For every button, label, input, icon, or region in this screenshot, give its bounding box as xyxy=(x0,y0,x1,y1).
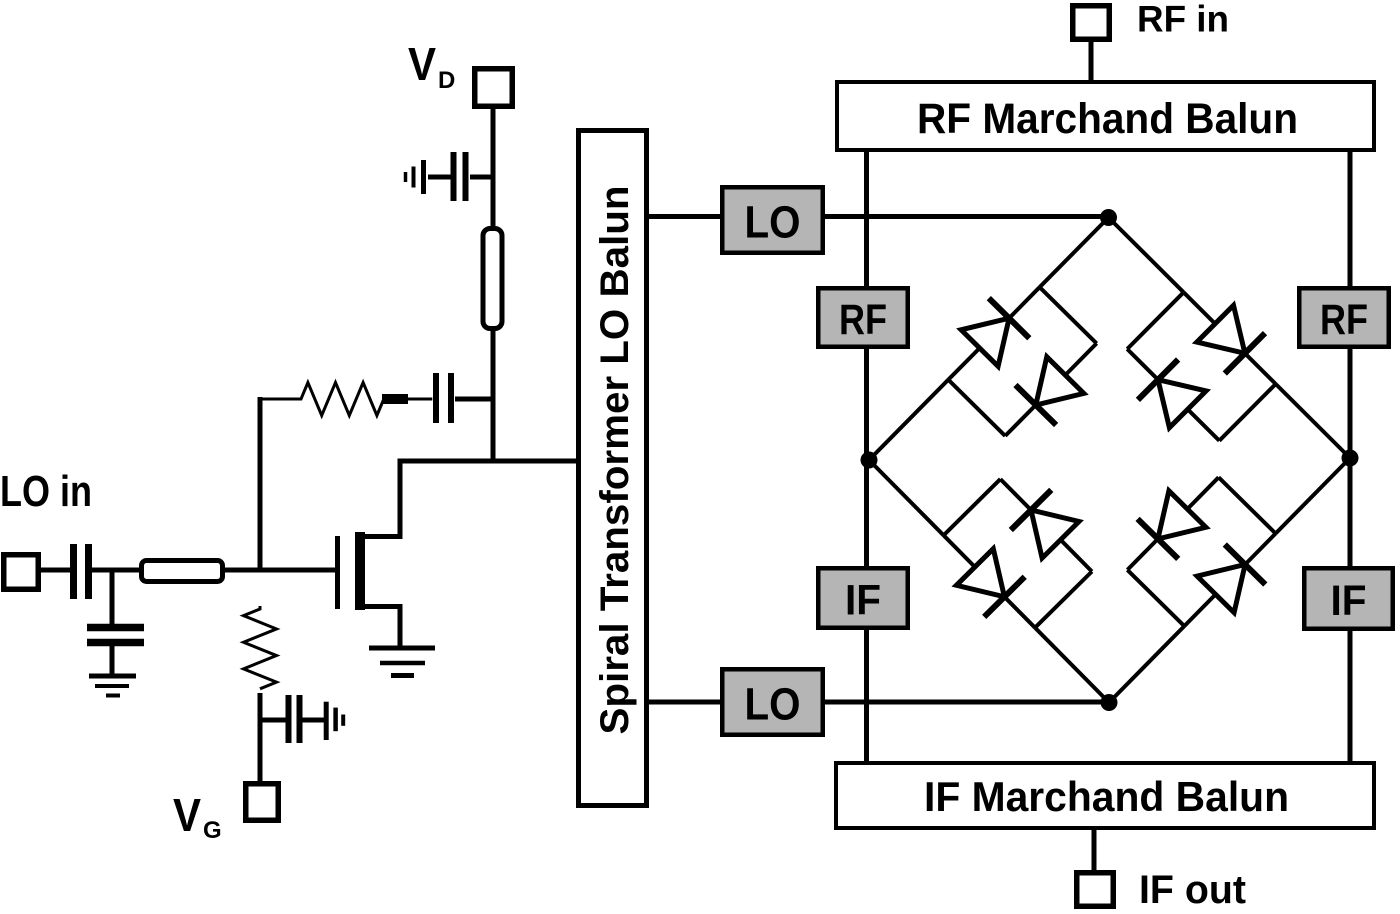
port box RF right xyxy=(1299,288,1389,347)
wire R3 to VG xyxy=(258,693,263,784)
transmission line TL1 xyxy=(142,561,223,582)
wire diode-quad arm top-right xyxy=(1109,218,1184,293)
capacitor C5 (VG bypass) xyxy=(258,718,287,723)
terminal LO in xyxy=(4,555,39,590)
port box RF left xyxy=(818,288,908,347)
wire C3 to TL1 xyxy=(90,568,141,573)
svg-text:IF: IF xyxy=(845,577,881,625)
diode D6 xyxy=(1031,510,1079,558)
svg-text:LO in: LO in xyxy=(0,467,92,516)
wire LO bottom xyxy=(647,700,1109,705)
svg-text:RF: RF xyxy=(839,296,887,344)
resistor R3 (gate bias zigzag) xyxy=(244,606,277,689)
port box IF right xyxy=(1304,568,1393,629)
wire diode-quad arm bottom-left xyxy=(869,460,944,535)
svg-text:RF Marchand Balun: RF Marchand Balun xyxy=(917,95,1298,143)
port box IF left xyxy=(818,568,908,628)
node LO- (bottom vertex) xyxy=(1101,694,1118,711)
terminal RF in xyxy=(1073,6,1110,40)
diode D3 xyxy=(1197,305,1245,353)
svg-text:RF in: RF in xyxy=(1137,0,1229,40)
box IF Marchand Balun xyxy=(836,763,1374,828)
diode D7 xyxy=(1197,565,1245,613)
wire RF-IF left bus xyxy=(864,150,869,763)
capacitor C1 (VD bypass) xyxy=(470,175,493,180)
diode D8 xyxy=(1158,491,1206,539)
svg-text:RF: RF xyxy=(1320,296,1368,344)
node RF- (left vertex) xyxy=(861,452,878,469)
port box LO bottom xyxy=(722,669,823,735)
resistor R2 (feedback zigzag) xyxy=(382,394,408,404)
svg-text:G: G xyxy=(203,817,222,844)
svg-text:V: V xyxy=(173,789,201,841)
capacitor C3 (LO series) xyxy=(70,544,77,599)
ground (rotated) at C5 xyxy=(324,702,329,740)
wire VD drain line xyxy=(491,107,496,459)
box spiral transformer LO balun xyxy=(579,131,647,806)
svg-text:LO: LO xyxy=(745,196,801,247)
transistor Q1 xyxy=(335,536,340,609)
svg-text:V: V xyxy=(408,38,436,90)
port box LO top xyxy=(722,187,823,253)
ground at C4 xyxy=(89,674,136,679)
node LO+ (top vertex) xyxy=(1100,209,1117,226)
wire drain to LO balun xyxy=(398,459,579,464)
wire IF out xyxy=(1092,828,1097,873)
wire LO in to C3 xyxy=(39,568,72,573)
wire diode-quad arm top-left xyxy=(1040,218,1109,288)
ground at Q1 source xyxy=(369,646,435,651)
wire feedback to gate node xyxy=(258,397,263,572)
diode D2 xyxy=(1036,357,1084,405)
svg-text:IF out: IF out xyxy=(1139,868,1246,912)
wire RF-IF right bus xyxy=(1348,150,1353,763)
capacitor C4 (LO shunt) xyxy=(110,570,115,626)
node RF+ (right vertex) xyxy=(1342,450,1359,467)
wire RF in xyxy=(1089,40,1094,82)
svg-text:LO: LO xyxy=(745,678,801,729)
wire LO top xyxy=(647,214,1109,219)
svg-text:D: D xyxy=(438,67,455,94)
svg-text:IF: IF xyxy=(1331,577,1367,625)
capacitor C2 (feedback) xyxy=(455,397,493,402)
resistor R1 (drain line) xyxy=(483,229,502,329)
box RF Marchand Balun xyxy=(837,82,1374,150)
diode D1 xyxy=(961,318,1009,366)
diode D4 xyxy=(1158,380,1206,428)
ground (rotated) at C1 xyxy=(421,160,426,194)
terminal VG xyxy=(246,784,279,821)
terminal VD xyxy=(475,69,513,107)
wire TL1 to gate xyxy=(223,568,336,573)
terminal IF out xyxy=(1077,873,1114,907)
wire diode-quad arm bottom-right xyxy=(1276,458,1350,534)
diode D5 xyxy=(956,549,1004,597)
svg-text:Spiral Transformer LO Balun: Spiral Transformer LO Balun xyxy=(593,186,637,735)
svg-text:IF Marchand Balun: IF Marchand Balun xyxy=(924,773,1289,820)
